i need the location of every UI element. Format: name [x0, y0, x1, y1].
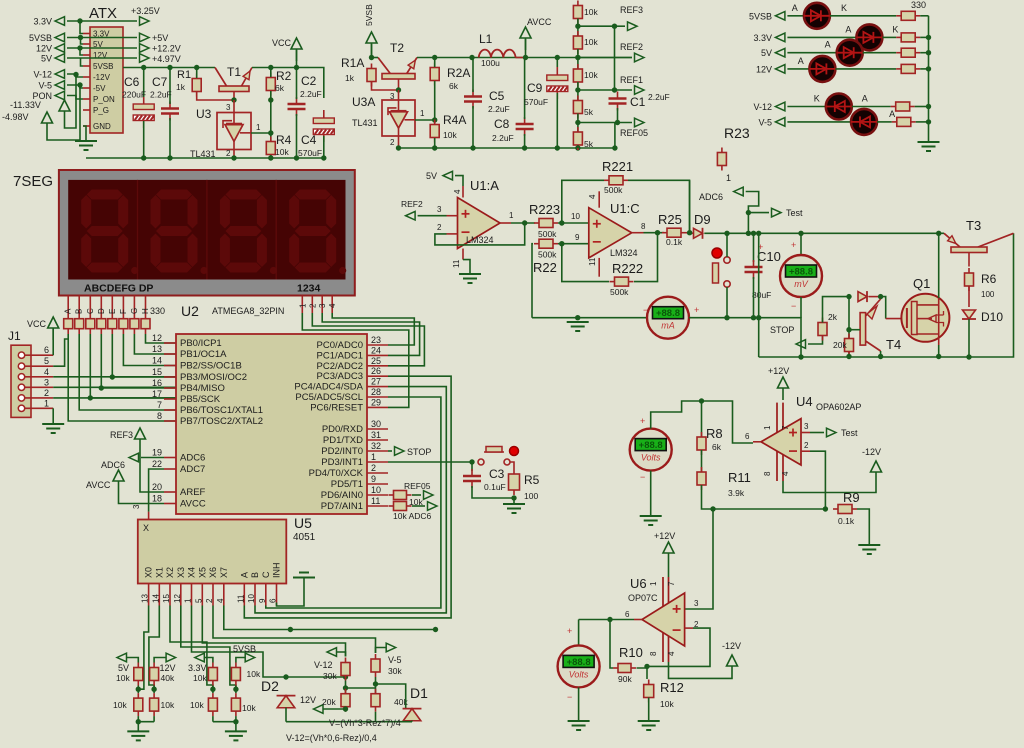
junction C6 — [141, 65, 146, 70]
wire V-5 bottom — [375, 712, 377, 722]
resistor R1 — [192, 74, 201, 97]
svg-text:10k: 10k — [660, 699, 674, 709]
junction C9 top — [555, 55, 560, 60]
svg-text:1: 1 — [184, 598, 193, 603]
resistor 330 H bottom stub — [145, 329, 147, 334]
svg-text:STOP: STOP — [407, 447, 431, 457]
svg-text:2: 2 — [437, 223, 442, 232]
U2 pin stub 17 — [164, 398, 176, 400]
wire R12 top — [646, 666, 648, 679]
display digit pin 4 — [331, 296, 333, 314]
wire C6 bottom — [143, 121, 145, 158]
svg-text:X1: X1 — [154, 567, 164, 578]
U1:A pin4 stub — [462, 186, 464, 198]
wire LED-res 5V — [863, 52, 897, 54]
wire R12 gnd — [648, 698, 650, 722]
svg-text:R1: R1 — [177, 69, 191, 81]
wire col2 arrow — [154, 658, 166, 660]
svg-text:5VSB: 5VSB — [93, 62, 113, 71]
svg-text:29: 29 — [371, 397, 381, 407]
wire J1 pin2 — [53, 397, 176, 399]
resistor 20k — [845, 334, 854, 357]
junction col1 gnd — [136, 719, 141, 724]
svg-text:-12V: -12V — [722, 641, 741, 651]
wire C3 top — [471, 462, 473, 471]
svg-text:C8: C8 — [494, 117, 510, 131]
terminal 5V — [55, 54, 65, 63]
svg-text:X6: X6 — [208, 567, 218, 578]
svg-text:6k: 6k — [449, 81, 459, 91]
junction col — [136, 687, 141, 692]
wire col3 arrow — [204, 658, 213, 660]
svg-text:R1A: R1A — [341, 56, 364, 70]
svg-text:VCC: VCC — [272, 38, 292, 48]
svg-text:U6: U6 — [630, 576, 647, 591]
terminal Test mid — [772, 208, 782, 217]
U5 pin stub X4 — [191, 584, 193, 606]
junction col4 gnd — [233, 719, 238, 724]
svg-text:10k: 10k — [116, 673, 130, 683]
svg-text:R10: R10 — [619, 645, 643, 660]
terminal 5V U1 — [443, 171, 453, 180]
svg-text:R4: R4 — [276, 133, 292, 147]
junction R10 R12 — [644, 664, 649, 669]
terminal -12V U4 — [871, 461, 882, 484]
wire Q1 source — [938, 334, 940, 345]
ground V3 — [568, 721, 590, 730]
wire pin11 gnd — [463, 260, 470, 274]
svg-text:V-12: V-12 — [33, 70, 52, 80]
wire ADC7 to U5 X — [149, 469, 164, 512]
U2 pin stub r2 — [367, 472, 388, 474]
U1:C pin11 stub — [598, 258, 600, 277]
wire AVCC stem — [525, 39, 527, 58]
wire C7 bottom — [169, 118, 171, 158]
U5 pin stub X3 — [180, 584, 182, 606]
svg-text:17: 17 — [152, 389, 162, 399]
junction C7 gnd — [167, 155, 172, 160]
wire mA right — [689, 318, 801, 357]
svg-text:V-5: V-5 — [758, 117, 772, 127]
junction rail2 end — [612, 145, 617, 150]
capacitor C9 — [547, 67, 568, 99]
U1:C output stub — [632, 232, 644, 234]
svg-text:R2: R2 — [276, 69, 292, 83]
wire C3 bottom — [472, 486, 514, 498]
svg-text:REF1: REF1 — [620, 75, 643, 85]
resistor 330 12V — [896, 64, 920, 73]
transistor Q1 — [901, 294, 949, 342]
ATX connector — [90, 27, 123, 133]
svg-text:AVCC: AVCC — [527, 17, 552, 27]
svg-text:8: 8 — [763, 471, 772, 476]
wire J1 pin5 — [53, 339, 68, 366]
wire AREF — [140, 451, 164, 492]
svg-text:3: 3 — [804, 422, 809, 431]
svg-text:3.3V: 3.3V — [188, 663, 207, 673]
resistor V-12 30k — [341, 658, 350, 681]
svg-text:D2: D2 — [261, 678, 279, 694]
terminal 5VSB col4 — [245, 653, 255, 662]
ATX pin stub 12V — [83, 54, 90, 56]
resistor ladder 5k b — [573, 127, 582, 150]
connector J1 pin circle 2 — [18, 395, 24, 401]
svg-text:500k: 500k — [538, 250, 557, 260]
svg-text:AREF: AREF — [180, 487, 206, 498]
connector J1 pin circle 1 — [18, 405, 24, 411]
U1:A pin3 stub — [447, 215, 458, 217]
svg-text:5V: 5V — [426, 171, 437, 181]
wire res-bus V-5 — [916, 121, 929, 123]
resistor R8 — [697, 432, 706, 455]
svg-text:R22: R22 — [533, 260, 557, 275]
svg-text:2: 2 — [44, 388, 49, 398]
svg-text:4051: 4051 — [293, 532, 316, 543]
wire col mid — [235, 686, 237, 694]
wire ADC6 hook — [746, 192, 759, 234]
svg-text:6: 6 — [44, 345, 49, 355]
wire 3.3V rail — [67, 20, 137, 22]
svg-text:2: 2 — [308, 303, 317, 308]
wire PC5 net — [266, 397, 441, 608]
svg-text:R223: R223 — [529, 202, 560, 217]
terminal 5VSB — [366, 32, 377, 55]
svg-text:U3A: U3A — [352, 95, 375, 109]
wire Q1 source down — [938, 345, 940, 357]
resistor 330 H — [141, 319, 150, 329]
svg-text:−: − — [791, 301, 796, 311]
svg-text:1: 1 — [256, 123, 261, 132]
svg-text:R2A: R2A — [447, 66, 470, 80]
svg-text:C: C — [86, 308, 95, 314]
svg-text:C4: C4 — [301, 133, 317, 147]
resistor ladder 5k a — [573, 96, 582, 119]
wire ADC6 left — [141, 457, 164, 459]
terminal +12.2V — [140, 44, 150, 53]
svg-text:AVCC: AVCC — [180, 499, 206, 510]
terminal REF3 — [628, 22, 638, 31]
svg-text:V-5: V-5 — [388, 655, 402, 665]
transistor T4 — [860, 299, 881, 351]
wire X2 net — [170, 606, 213, 690]
svg-text:+5V: +5V — [152, 33, 168, 43]
svg-text:19: 19 — [152, 448, 162, 458]
svg-text:5k: 5k — [584, 139, 594, 149]
U5 pin stub INH — [276, 584, 278, 606]
svg-text:R6: R6 — [981, 272, 997, 286]
svg-text:GND: GND — [93, 122, 111, 131]
transistor T2 — [378, 58, 417, 80]
junction rail 969 — [966, 354, 971, 359]
svg-text:PD1/TXD: PD1/TXD — [323, 435, 363, 446]
svg-text:40k: 40k — [161, 673, 175, 683]
svg-text:100: 100 — [524, 491, 538, 501]
capacitor C8 — [516, 117, 534, 136]
junction T2 base — [396, 87, 401, 92]
terminal V-5 col — [386, 643, 396, 652]
svg-text:L1: L1 — [479, 32, 493, 46]
diode D1 — [403, 709, 422, 721]
svg-text:10k: 10k — [190, 700, 204, 710]
wire U6 feedback — [647, 628, 710, 666]
junction C9 gnd — [555, 145, 560, 150]
capacitor C10 — [745, 260, 763, 279]
connector J1 pin stub 3 — [25, 386, 54, 388]
diode D2 — [277, 696, 296, 708]
U2 pin stub 8 — [164, 420, 176, 422]
svg-text:R11: R11 — [728, 470, 751, 485]
svg-text:2: 2 — [804, 441, 809, 450]
U2 pin stub 22 — [164, 468, 176, 470]
junction LED bus — [926, 50, 931, 55]
svg-text:27: 27 — [371, 377, 381, 387]
display digit pin 1 — [301, 296, 303, 314]
wire 3.3V drop — [80, 21, 83, 34]
svg-text:V-12: V-12 — [314, 660, 333, 670]
wire Q1 drain up — [938, 233, 940, 298]
wire res-bus 5VSB — [920, 15, 928, 17]
svg-text:23: 23 — [371, 335, 381, 345]
transistor T3 — [944, 233, 1014, 252]
resistor 330 C bottom stub — [89, 329, 91, 334]
wire col down — [137, 716, 139, 722]
U2 pin stub r24 — [367, 354, 388, 356]
wire PC4 net — [255, 387, 446, 613]
svg-text:12V: 12V — [756, 64, 772, 74]
junction LED bus — [926, 104, 931, 109]
svg-text:ADC7: ADC7 — [180, 464, 205, 475]
junction C4 gnd — [321, 155, 326, 160]
capacitor C5 — [464, 90, 482, 109]
svg-text:R222: R222 — [612, 261, 643, 276]
ladder seg4 — [577, 114, 579, 134]
svg-text:3: 3 — [132, 504, 141, 509]
svg-text:6: 6 — [269, 598, 278, 603]
connector J1 — [11, 345, 31, 417]
wire PON — [67, 96, 83, 100]
junction R2 bottom — [268, 97, 273, 102]
U2 pin stub r30 — [367, 428, 388, 430]
svg-text:4: 4 — [44, 367, 49, 377]
svg-text:11: 11 — [588, 257, 597, 266]
resistor 330 B — [75, 319, 84, 329]
U4 pin3 stub — [801, 432, 810, 434]
wire SW1 right — [510, 462, 514, 469]
wire SW2 top — [726, 233, 728, 257]
wire mA net — [532, 317, 647, 319]
svg-text:PD7/AIN1: PD7/AIN1 — [321, 501, 363, 512]
wire V-12 top — [337, 652, 346, 657]
ground mA — [567, 322, 589, 331]
junction T4 col — [878, 354, 883, 359]
wire T3 base — [968, 253, 970, 267]
resistor ladder 10k a — [573, 1, 582, 24]
wire col top — [137, 659, 139, 663]
wire C10 top — [753, 233, 755, 262]
svg-text:5k: 5k — [584, 107, 594, 117]
junction rail x727 — [724, 231, 729, 236]
svg-text:T3: T3 — [966, 218, 981, 233]
resistor V-5 40k — [371, 689, 380, 712]
terminal 12V col2 — [166, 653, 176, 662]
junction ladder — [575, 55, 580, 60]
wire D1 top — [376, 684, 406, 708]
junction diode in — [846, 294, 851, 299]
wire segment net 6 — [79, 334, 176, 410]
svg-text:REF2: REF2 — [620, 42, 643, 52]
svg-text:+: + — [694, 305, 699, 315]
junction LED bus — [926, 119, 931, 124]
junction rail x753 — [751, 231, 756, 236]
svg-text:E: E — [108, 309, 117, 314]
U5 pin stub X1 — [158, 584, 160, 606]
svg-text:7: 7 — [157, 400, 162, 410]
U5 pin stub B — [254, 584, 256, 606]
wire R4 bottom — [270, 155, 272, 158]
wire PC6 net — [302, 313, 409, 407]
resistor R5 — [509, 469, 520, 495]
resistor 330 F bottom stub — [122, 329, 124, 334]
display 7SEG panel — [68, 180, 345, 280]
wire bottom net rail — [286, 721, 412, 723]
junction D2 top — [283, 674, 288, 679]
resistor R10 — [613, 664, 636, 673]
svg-text:12: 12 — [152, 333, 162, 343]
svg-text:-11.33V: -11.33V — [10, 100, 41, 110]
resistor R2A — [430, 63, 439, 86]
resistor R4 — [266, 137, 275, 160]
wire ground rail 2 — [399, 147, 615, 149]
wire R22 to pin9 — [558, 243, 589, 245]
svg-text:OP07C: OP07C — [628, 593, 658, 603]
svg-text:4: 4 — [667, 651, 676, 656]
diode D T4 — [858, 291, 867, 302]
svg-text:Volts: Volts — [569, 669, 589, 679]
svg-text:D9: D9 — [694, 212, 711, 227]
wire REF3-REF1 bus — [614, 26, 616, 90]
wire X6 net — [213, 606, 376, 654]
svg-text:A: A — [798, 56, 804, 66]
wire R10 right — [637, 666, 648, 668]
wire X5 net — [202, 606, 345, 657]
wire res-bus 12V — [920, 68, 928, 70]
svg-text:REF05: REF05 — [404, 481, 431, 491]
svg-text:5: 5 — [44, 356, 49, 366]
connector J1 pin stub 2 — [25, 397, 54, 399]
svg-text:1: 1 — [298, 303, 307, 308]
svg-text:5V: 5V — [761, 48, 772, 58]
junction R4A gnd — [432, 145, 437, 150]
terminal LED 5V — [775, 48, 785, 57]
junction R2A top — [432, 55, 437, 60]
U1:C pin4 stub — [598, 191, 600, 207]
svg-text:C3: C3 — [489, 467, 505, 481]
svg-text:3.9k: 3.9k — [728, 488, 745, 498]
wire U4 test — [810, 432, 824, 434]
junction V-5 — [373, 681, 378, 686]
LED V-5 — [851, 109, 877, 135]
svg-text:A: A — [239, 572, 249, 578]
wire main rail — [704, 232, 944, 234]
wire STOP to 2k — [808, 336, 823, 344]
display segment pin F — [122, 296, 124, 319]
junction test — [746, 210, 751, 215]
svg-text:F: F — [119, 309, 128, 314]
svg-text:TL431: TL431 — [352, 118, 378, 128]
svg-text:PB2/SS/OC1B: PB2/SS/OC1B — [180, 361, 242, 372]
terminal +12V U6 — [663, 542, 674, 565]
wire R221 left — [562, 180, 604, 223]
wire GND — [83, 126, 86, 141]
terminal REF3 U2 — [135, 428, 146, 451]
wire L1 right stub — [516, 57, 526, 59]
wire -4.98V — [47, 85, 80, 140]
resistor col top — [231, 663, 240, 686]
svg-text:C7: C7 — [152, 75, 168, 89]
pushbutton SW2 — [712, 248, 730, 287]
wire LED row 12V — [787, 68, 809, 70]
resistor R222 — [610, 277, 634, 286]
svg-text:10k: 10k — [275, 147, 289, 157]
svg-text:+: + — [640, 416, 645, 426]
U2 pin stub r28 — [367, 396, 388, 398]
display segment pin G — [133, 296, 135, 319]
capacitor C2 — [288, 97, 306, 116]
resistor 10k pin11 — [389, 502, 412, 511]
svg-text:Volts: Volts — [641, 453, 661, 463]
svg-text:10k: 10k — [443, 130, 457, 140]
svg-text:500k: 500k — [604, 185, 623, 195]
svg-text:K: K — [814, 94, 820, 104]
display digit pin 3 — [321, 296, 323, 314]
terminal STOP mid — [796, 340, 806, 349]
wire D10 bottom — [968, 319, 970, 357]
svg-text:PC4/ADC4/SDA: PC4/ADC4/SDA — [294, 382, 363, 393]
ATX pin stub 3.3V — [83, 33, 90, 35]
svg-text:570uF: 570uF — [298, 148, 322, 158]
svg-text:5V: 5V — [118, 663, 129, 673]
connector J1 pin stub 4 — [25, 376, 54, 378]
svg-text:PC1/ADC1: PC1/ADC1 — [317, 350, 363, 361]
LED 5VSB — [804, 3, 830, 29]
svg-text:REF3: REF3 — [110, 430, 133, 440]
wire R4A bottom — [434, 138, 436, 148]
resistor R11 — [697, 467, 706, 490]
wire R222 right — [634, 233, 658, 282]
wire 5VSB drop — [81, 58, 84, 66]
junction U1:A out — [522, 220, 527, 225]
wire R11 bottom — [702, 485, 826, 509]
junction V-12 rail — [343, 674, 348, 679]
svg-text:10k: 10k — [584, 70, 598, 80]
ground ATX — [75, 141, 97, 150]
svg-text:9: 9 — [371, 474, 376, 484]
wire U3A pin1 — [415, 119, 435, 121]
svg-text:26: 26 — [371, 366, 381, 376]
svg-text:PC3/ADC3: PC3/ADC3 — [317, 371, 363, 382]
junction C3 top — [469, 459, 474, 464]
wire base net — [848, 297, 850, 357]
resistor R223 — [534, 219, 558, 228]
svg-text:80uF: 80uF — [752, 290, 771, 300]
svg-text:STOP: STOP — [770, 325, 794, 335]
wire 2k top — [823, 297, 850, 323]
terminal REF1 — [635, 86, 645, 95]
terminal +3.25V — [140, 17, 150, 26]
terminal LED 12V — [775, 65, 785, 74]
junction rail x938 — [936, 231, 941, 236]
svg-text:+88.8: +88.8 — [567, 657, 591, 668]
